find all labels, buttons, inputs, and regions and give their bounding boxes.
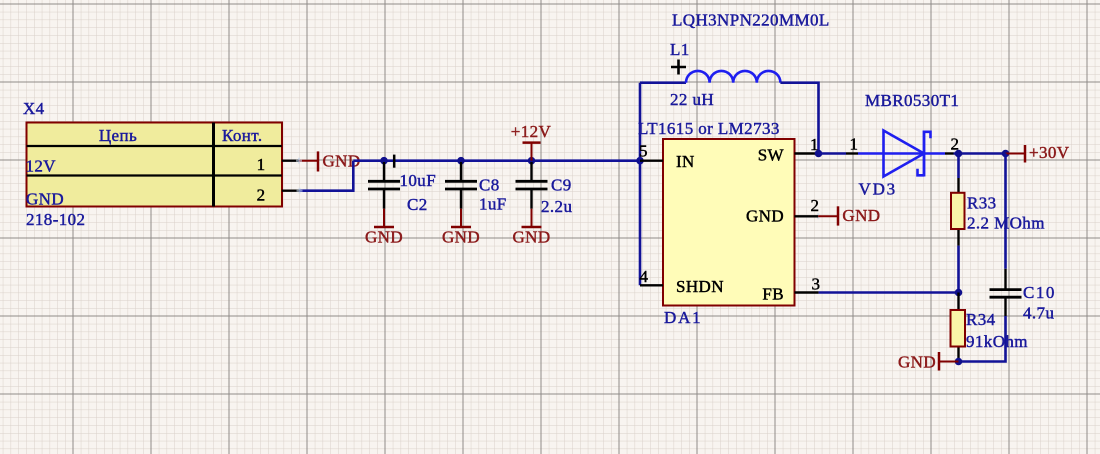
wire vertical branch from L1 down through IN junction to SHDN [639, 83, 642, 286]
svg-text:218-102: 218-102 [26, 210, 85, 229]
power port GND at IC pin 2 [818, 206, 838, 225]
svg-text:1: 1 [850, 135, 859, 154]
svg-text:GND: GND [442, 228, 480, 247]
svg-text:SHDN: SHDN [676, 277, 724, 296]
resistor R34 body [951, 310, 966, 347]
wire FB to R33/R34 node [819, 291, 959, 294]
svg-text:5: 5 [639, 142, 648, 161]
svg-text:GND: GND [842, 206, 880, 225]
svg-text:LQH3NPN220MM0L: LQH3NPN220MM0L [672, 11, 830, 30]
svg-text:22 uH: 22 uH [670, 90, 714, 109]
wire from X4 pin 2 up to +12V rail [300, 161, 354, 191]
svg-text:FB: FB [762, 285, 784, 304]
svg-text:R33: R33 [967, 194, 997, 213]
junction at C2 top [380, 157, 388, 165]
capacitor C2 body [368, 162, 400, 209]
connector X4 pin 2 stub [282, 189, 300, 191]
IC pin 3 stub (FB) [795, 291, 819, 293]
wire SW node to diode VD3 anode [819, 152, 847, 155]
diode VD3 pin 2 tick [945, 152, 954, 154]
capacitor C8 body [445, 162, 477, 209]
svg-text:4: 4 [640, 267, 649, 286]
svg-text:X4: X4 [23, 99, 45, 118]
power port GND at R34 bottom: lead and bar [939, 352, 959, 371]
junction at C8 top [457, 157, 465, 165]
power port GND under C8 [451, 209, 471, 227]
wire +12V rail [353, 159, 641, 162]
svg-text:4.7u: 4.7u [1023, 304, 1054, 323]
svg-text:GND: GND [365, 228, 403, 247]
svg-text:2: 2 [811, 196, 820, 215]
connector X4 table body [27, 123, 283, 207]
power port +30V lead and bar [1006, 145, 1026, 163]
svg-text:C2: C2 [407, 195, 428, 214]
svg-text:+12V: +12V [511, 122, 552, 141]
diode VD3 pin 1 lead (blue, through triangle) [858, 152, 945, 154]
wire R33 top lead [957, 154, 960, 179]
svg-text:GND: GND [746, 207, 784, 226]
wire diode to +30V node [954, 152, 1006, 155]
svg-text:3: 3 [812, 275, 821, 294]
svg-text:DA1: DA1 [664, 308, 702, 327]
junction at R34 bottom / GND [955, 358, 963, 366]
svg-text:GND: GND [26, 190, 64, 209]
wire L1 left lead [640, 81, 686, 84]
inductor L1 arcs [686, 71, 780, 83]
svg-text:IN: IN [676, 152, 695, 171]
svg-text:C9: C9 [551, 176, 572, 195]
junction at R33 top [955, 150, 963, 158]
svg-text:SW: SW [758, 146, 785, 165]
inductor L1 polarity + mark [671, 60, 686, 75]
svg-text:12V: 12V [26, 157, 57, 176]
power port GND at X4 pin 1: lead and bar [299, 151, 318, 171]
svg-text:C10: C10 [1023, 283, 1056, 302]
svg-text:2.2u: 2.2u [541, 197, 572, 216]
svg-text:+30V: +30V [1029, 143, 1070, 162]
power port GND under C9 [522, 209, 542, 227]
junction at C9 / +12V port [528, 157, 536, 165]
pin hotspot marks (pale) [296, 158, 821, 220]
svg-text:10uF: 10uF [400, 171, 437, 190]
resistor R33 pin leads [957, 178, 959, 246]
svg-text:MBR0530T1: MBR0530T1 [865, 91, 959, 110]
op-amp/regulator IC DA1 body [663, 139, 795, 306]
svg-text:R34: R34 [966, 310, 996, 329]
resistor R33 body [951, 193, 965, 229]
svg-text:GND: GND [512, 228, 550, 247]
svg-text:LT1615 or LM2733: LT1615 or LM2733 [638, 119, 780, 138]
wire bottom from GND node to C10 [959, 316, 1006, 362]
IC pin 1 stub (SW) [795, 152, 819, 154]
svg-text:1: 1 [257, 155, 266, 174]
svg-text:2.2 MOhm: 2.2 MOhm [967, 213, 1045, 232]
tick mark on rail right of C2 junction [393, 155, 396, 168]
wire from +30V node down to C10 [1004, 154, 1007, 269]
junction at SW node [815, 150, 823, 158]
svg-text:Цепь: Цепь [99, 126, 137, 145]
svg-text:VD3: VD3 [859, 180, 897, 199]
svg-text:C8: C8 [479, 176, 500, 195]
wire R33 bottom to FB node [957, 246, 960, 293]
svg-text:Конт.: Конт. [222, 126, 263, 145]
svg-text:1uF: 1uF [479, 195, 507, 214]
IC pin 4 stub (SHDN) [640, 284, 663, 286]
svg-text:GND: GND [898, 353, 936, 372]
capacitor C10 body [990, 269, 1022, 316]
junction at IC IN / branch to L1 and SHDN [636, 157, 644, 165]
IC pin 2 stub (GND) [795, 215, 819, 217]
power port GND under C2 [374, 209, 394, 227]
connector X4 pin 1 stub [282, 159, 299, 161]
IC pin 5 stub (IN) [640, 159, 663, 161]
junction at +30V / C10 [1002, 150, 1010, 158]
capacitor C9 body [516, 162, 548, 209]
svg-text:L1: L1 [670, 40, 690, 59]
power port +12V bar and stem [523, 143, 541, 161]
diode VD3 (Schottky) body [884, 131, 931, 177]
svg-text:2: 2 [257, 186, 266, 205]
wire L1 right lead down to SW [780, 83, 818, 154]
junction at FB node [955, 289, 963, 297]
svg-text:91kOhm: 91kOhm [966, 332, 1028, 351]
resistor R34 pin leads [957, 293, 959, 362]
diode VD3 pin 1 tick [846, 152, 858, 154]
